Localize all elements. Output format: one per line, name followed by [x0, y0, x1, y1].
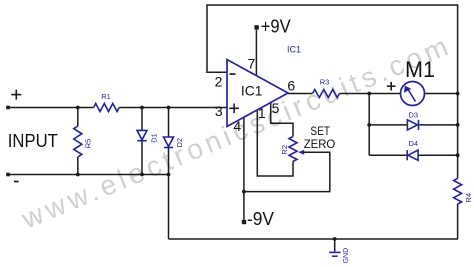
svg-text:GND: GND: [343, 248, 350, 264]
wire R2 wiper return: [244, 152, 330, 191]
node R5 top junction: [76, 106, 80, 110]
svg-text:D2: D2: [175, 138, 184, 148]
svg-text:R4: R4: [464, 193, 473, 203]
svg-text:INPUT: INPUT: [8, 131, 58, 151]
wire R5 bottom lead: [77, 157, 79, 175]
wire D1 bottom lead: [141, 141, 143, 175]
ground symbol: [329, 252, 340, 256]
svg-text:-9V: -9V: [247, 208, 275, 229]
node D1 top junction: [140, 106, 144, 110]
resistor R5: [74, 126, 82, 157]
node meter left junction: [367, 92, 371, 96]
node ground junction: [333, 237, 337, 241]
svg-text:6: 6: [287, 77, 295, 93]
wire D3 row: [369, 124, 407, 126]
svg-text:2: 2: [215, 74, 223, 90]
diode D2: [164, 137, 174, 147]
wire input minus down to bottom rail: [168, 175, 170, 240]
node D3 left junction: [367, 123, 371, 127]
wire pin1 to R2 bottom: [257, 110, 293, 176]
terminal input minus: [6, 173, 10, 177]
diode D4: [408, 150, 418, 160]
blue reference labels: [84, 45, 473, 264]
wire feedback pin2: [207, 5, 458, 94]
label - op-amp inverting: [230, 73, 236, 75]
svg-text:4: 4: [233, 118, 241, 134]
svg-text:3: 3: [215, 103, 223, 119]
wire R5 top lead: [77, 108, 79, 127]
svg-text:R2: R2: [280, 145, 289, 155]
svg-text:D3: D3: [409, 110, 419, 119]
wire D4 row: [369, 154, 407, 156]
label - input: [14, 181, 19, 183]
diode D1: [137, 130, 147, 140]
svg-text:ZERO: ZERO: [304, 137, 336, 151]
svg-text:D1: D1: [150, 133, 159, 143]
resistor R3: [313, 90, 340, 98]
node wiper -9V junction: [242, 190, 246, 194]
label + input: [11, 94, 21, 96]
wire pin5 to R2 top: [271, 103, 293, 137]
potentiometer R2 wiper arrow: [298, 150, 304, 155]
op-amp U1 triangle: [227, 60, 288, 127]
wire input plus top: [8, 107, 94, 109]
svg-text:R1: R1: [101, 92, 111, 101]
black text labels: [8, 16, 435, 229]
wire meter to right rail: [425, 93, 459, 95]
wire D2 top lead: [168, 108, 170, 138]
node D1 bottom junction: [140, 173, 144, 177]
wire input minus bottom: [8, 174, 169, 176]
wire R1 to op-amp pin 3: [119, 107, 227, 109]
svg-text:1: 1: [258, 105, 266, 121]
node R5 bottom junction: [76, 173, 80, 177]
node D2 top junction: [167, 106, 171, 110]
meter M1 circle: [401, 82, 425, 106]
diode D3: [407, 120, 417, 130]
wire pin7 to +9V: [255, 30, 257, 76]
terminal input plus: [6, 106, 10, 110]
svg-text:R3: R3: [320, 78, 330, 87]
meter M1 needle: [408, 90, 416, 102]
wire left rail: [368, 94, 370, 156]
svg-text:D4: D4: [409, 139, 419, 148]
watermark www.electronicscircuits.com: [17, 29, 457, 235]
wire D1 top lead: [141, 108, 143, 131]
svg-text:+9V: +9V: [261, 16, 292, 37]
resistor R4: [454, 178, 462, 204]
svg-text:5: 5: [272, 100, 280, 116]
node D2 bottom junction: [167, 173, 171, 177]
svg-text:7: 7: [248, 55, 256, 71]
wire D2 bottom lead: [168, 148, 170, 175]
resistor R2: [289, 137, 297, 162]
wire right rail: [457, 94, 459, 179]
black plus minus markers drawn as rects: [11, 73, 395, 182]
node D3 right junction: [456, 123, 460, 127]
terminal +9V: [254, 25, 258, 29]
wire op-amp output pin6: [288, 93, 313, 95]
wire bottom rail: [169, 238, 459, 240]
wire pin4 to -9V: [243, 117, 245, 220]
node D4 right junction: [456, 153, 460, 157]
blue component symbols: [74, 90, 462, 205]
svg-text:M1: M1: [405, 57, 435, 82]
terminal -9V: [242, 220, 246, 224]
node meter right junction: [456, 92, 460, 96]
svg-text:R5: R5: [84, 139, 93, 149]
label + meter: [387, 85, 396, 87]
svg-text:IC1: IC1: [287, 45, 301, 55]
label + op-amp non-inverting: [229, 108, 239, 110]
wire ground stub: [334, 239, 336, 252]
svg-text:SET: SET: [310, 124, 330, 138]
resistor R1: [94, 104, 120, 112]
svg-text:IC1: IC1: [241, 83, 263, 99]
wire R3 to meter: [340, 93, 401, 95]
